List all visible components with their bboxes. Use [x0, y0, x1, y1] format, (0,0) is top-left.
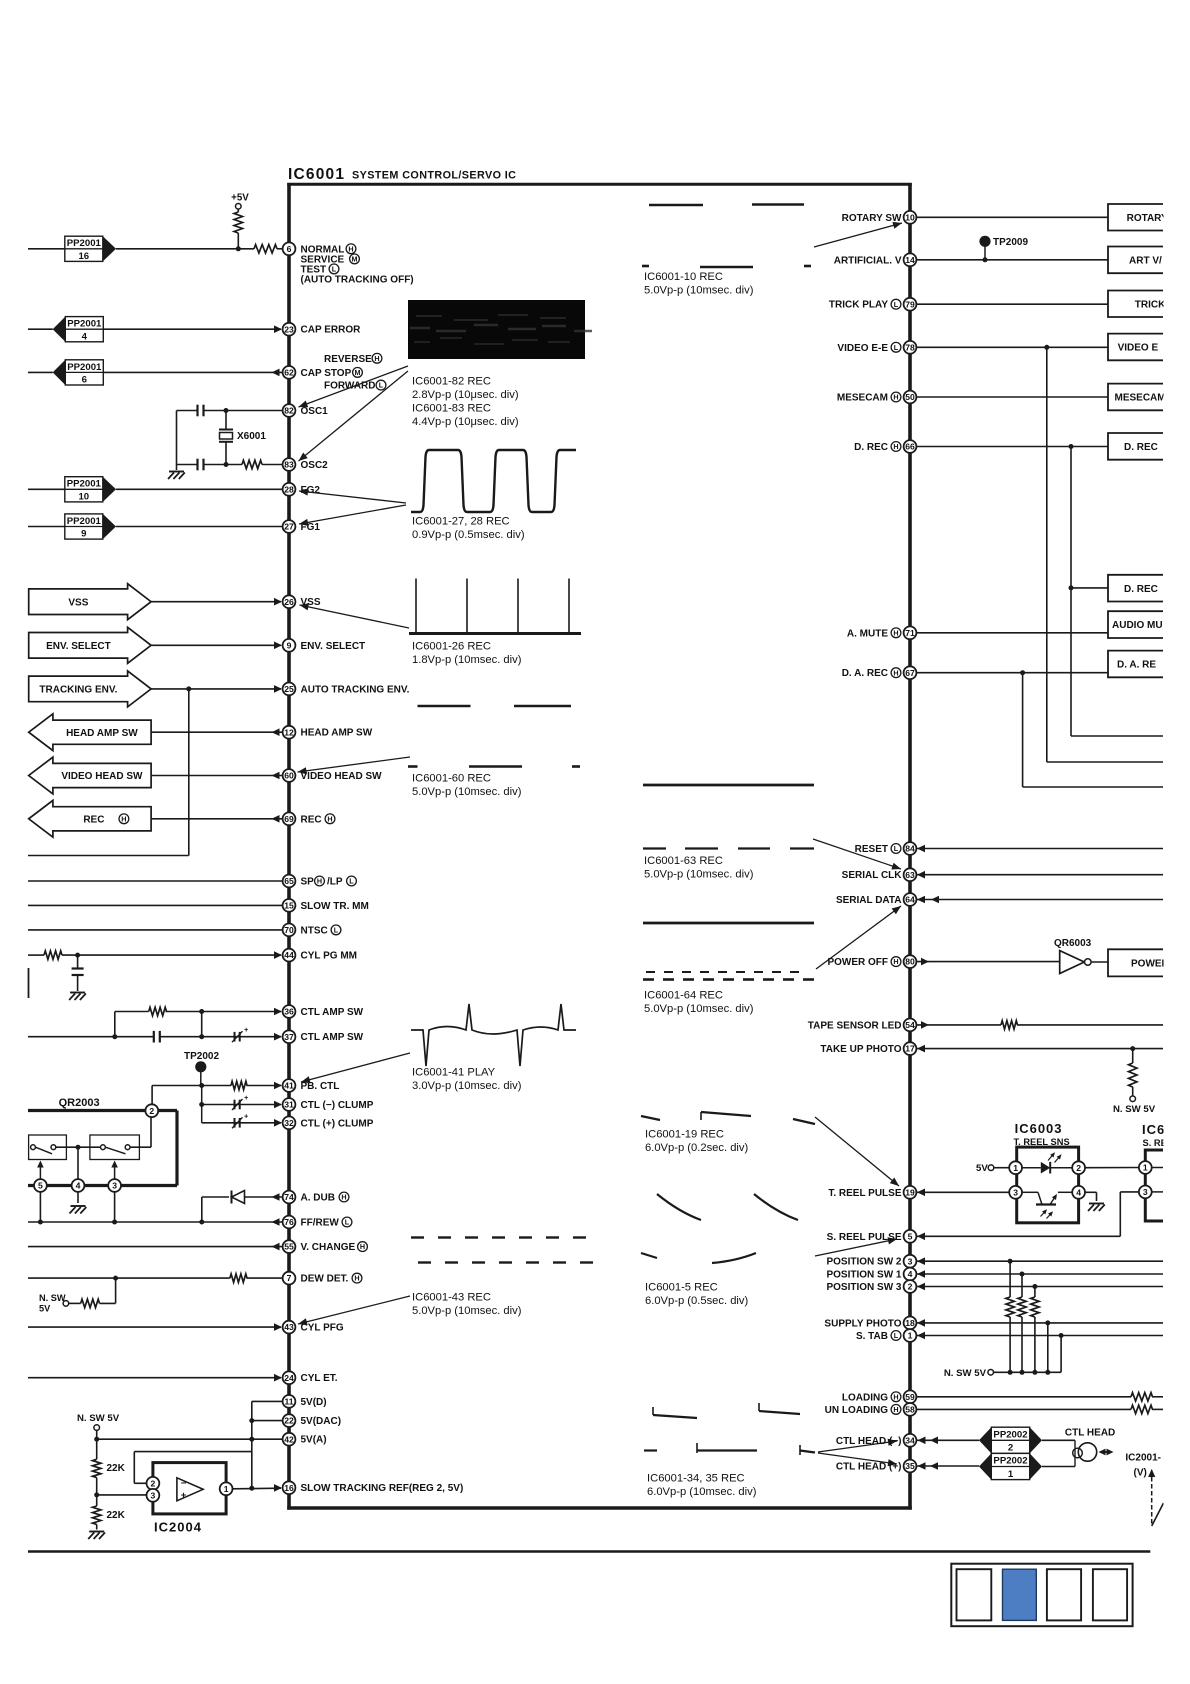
svg-text:74: 74 [284, 1192, 294, 1202]
svg-text:5V: 5V [976, 1163, 988, 1174]
connector PP2001 pin9 [28, 514, 116, 540]
svg-text:VIDEO HEAD SW: VIDEO HEAD SW [301, 771, 383, 782]
pin 31 CTL(-)CLUMP [283, 1098, 374, 1111]
svg-text:H: H [354, 1274, 359, 1283]
box D.REC 2 [1108, 575, 1163, 602]
connector PP2002 pin2 [979, 1427, 1042, 1454]
svg-text:H: H [327, 814, 332, 823]
svg-text:L: L [379, 381, 384, 390]
svg-text:CTL (+) CLUMP: CTL (+) CLUMP [301, 1118, 374, 1129]
power N.SW 5V terminal [77, 1413, 120, 1460]
svg-text:4: 4 [908, 1269, 913, 1279]
svg-text:IC2001-: IC2001- [1125, 1453, 1161, 1464]
pin 9 ENV.SELECT [283, 639, 366, 652]
svg-text:CAP STOP: CAP STOP [301, 368, 352, 379]
svg-text:62: 62 [284, 368, 294, 378]
svg-text:IC6001-64 REC: IC6001-64 REC [644, 990, 723, 1002]
svg-text:CAP ERROR: CAP ERROR [301, 325, 362, 336]
clamp diode pair pin 32 [232, 1111, 249, 1128]
svg-text:A. DUB: A. DUB [301, 1193, 335, 1204]
wire pin 32 stub [202, 1119, 282, 1127]
pin 76 FF/REW [283, 1216, 352, 1229]
pin 15 SLOW TR.MM [283, 899, 369, 912]
svg-text:22K: 22K [107, 1463, 126, 1474]
pin 82 OSC1 [283, 404, 329, 417]
wire pin 2 POSITION SW3 [916, 1283, 1163, 1291]
wire pin 55 V.CHANGE [28, 1243, 282, 1251]
svg-text:SERIAL CLK: SERIAL CLK [842, 870, 903, 881]
wire pin 50 [916, 396, 1108, 398]
pointer to PB.CTL pin [301, 1053, 410, 1083]
pointer to CTL HEAD(-) pin [818, 1439, 897, 1452]
svg-text:16: 16 [284, 1483, 294, 1493]
wire coil arrow S2 [111, 1161, 118, 1180]
ground QR2003 pin4 [70, 1206, 87, 1214]
svg-text:42: 42 [284, 1434, 294, 1444]
label waveform 60 [412, 773, 522, 799]
svg-text:TP2002: TP2002 [184, 1051, 219, 1062]
pointer to OSC2 [299, 371, 409, 461]
svg-text:5V(DAC): 5V(DAC) [301, 1416, 342, 1427]
pin 36 CTL AMP SW [283, 1005, 364, 1018]
node switch junction [76, 1145, 81, 1150]
label waveform 41 [412, 1067, 522, 1093]
wire sw junction to pin4 [77, 1147, 79, 1179]
pin 41 PB.CTL [283, 1079, 340, 1092]
wire pin 34 CTL HEAD(-) [916, 1437, 979, 1445]
svg-text:IC6001-82 REC: IC6001-82 REC [412, 376, 491, 388]
svg-text:60: 60 [284, 771, 294, 781]
svg-text:1: 1 [908, 1331, 913, 1341]
svg-text:PP2001: PP2001 [67, 516, 102, 527]
pointer to CYL PFG pin [298, 1296, 410, 1325]
wire 5V bus vertical [251, 1401, 253, 1487]
svg-text:2.8Vp-p (10μsec. div): 2.8Vp-p (10μsec. div) [412, 389, 519, 401]
svg-text:IC6001: IC6001 [288, 166, 345, 183]
wire pin 44 CYL PG [28, 951, 282, 959]
svg-text:SP: SP [301, 877, 315, 888]
svg-text:(V): (V) [1134, 1468, 1147, 1479]
svg-text:D. REC: D. REC [1124, 442, 1158, 453]
svg-text:SYSTEM CONTROL/SERVO IC: SYSTEM CONTROL/SERVO IC [352, 170, 516, 182]
power N.SW 5V takeup [1113, 1096, 1156, 1115]
pointer to S.REEL PULSE pin [815, 1237, 897, 1256]
pin 59 LOADING [842, 1390, 917, 1403]
box TRICK [1108, 291, 1166, 318]
svg-text:28: 28 [284, 484, 294, 494]
svg-text:9: 9 [287, 640, 292, 650]
wire pin 37 CTL AMP SW [28, 1033, 282, 1041]
label IC6004 [1142, 1122, 1173, 1148]
svg-text:83: 83 [284, 460, 294, 470]
wire to op-amp pin3 [97, 1494, 146, 1496]
resistor loading [1131, 1393, 1153, 1401]
svg-text:H: H [348, 244, 353, 253]
svg-text:POWER OFF: POWER OFF [827, 957, 888, 968]
pointer to OSC1 [299, 366, 409, 407]
svg-text:PP2001: PP2001 [67, 479, 102, 490]
wire pin 76 FF/REW [28, 1218, 282, 1226]
node HEAD AMP SW output arrow [29, 714, 151, 751]
pin 50 MESECAM [837, 391, 917, 404]
svg-text:IC2004: IC2004 [154, 1520, 202, 1535]
LED IC6003 [1022, 1152, 1072, 1173]
pin 63 SERIAL CLK [842, 868, 917, 881]
node cyl-pg junction [75, 953, 80, 958]
svg-text:5.0Vp-p (10msec. div): 5.0Vp-p (10msec. div) [644, 1003, 754, 1015]
switch QR2003 S2 [90, 1135, 139, 1160]
svg-text:SLOW TR. MM: SLOW TR. MM [301, 901, 369, 912]
svg-text:25: 25 [284, 684, 294, 694]
pin QR2003-3 [108, 1179, 121, 1192]
svg-text:4: 4 [1076, 1187, 1081, 1197]
svg-text:POSITION SW 1: POSITION SW 1 [826, 1270, 901, 1281]
pin 23 CAP ERROR [283, 323, 362, 336]
svg-text:5.0Vp-p (10msec. div): 5.0Vp-p (10msec. div) [412, 1305, 522, 1317]
svg-text:L: L [349, 877, 354, 886]
wire pin 3 POSITION SW2 [916, 1257, 1163, 1265]
svg-text:59: 59 [905, 1392, 915, 1402]
box VIDEO E [1108, 334, 1163, 361]
pin 70 NTSC [283, 924, 341, 937]
pin 1 S.TAB [856, 1329, 916, 1342]
pointer to ROTARY SW pin [814, 222, 902, 247]
IC U-IC6001 body outline [287, 183, 912, 1510]
svg-text:2: 2 [1008, 1443, 1013, 1454]
svg-text:S. TAB: S. TAB [856, 1331, 888, 1342]
svg-text:ENV. SELECT: ENV. SELECT [301, 641, 366, 652]
connector PP2001 pin4 [28, 317, 103, 343]
pin 32 CTL(+)CLUMP [283, 1116, 374, 1129]
svg-text:9: 9 [81, 529, 86, 540]
svg-text:82: 82 [284, 406, 294, 416]
wire d-rec branch [1071, 447, 1163, 737]
svg-text:POSITION SW 3: POSITION SW 3 [826, 1282, 901, 1293]
svg-text:4: 4 [76, 1181, 81, 1191]
box AUDIO MU [1108, 611, 1163, 638]
svg-text:6: 6 [287, 244, 292, 254]
wire pin 84 RESET [916, 845, 1163, 853]
svg-text:ROTARY: ROTARY [1127, 213, 1168, 224]
svg-text:T. REEL SNS: T. REEL SNS [1014, 1137, 1070, 1147]
node TRACKING ENV. input arrow [29, 671, 151, 707]
svg-text:AUDIO MU: AUDIO MU [1112, 620, 1163, 631]
waveform 64 [643, 923, 814, 980]
wire TP2002 down [200, 1072, 203, 1123]
svg-text:N. SW 5V: N. SW 5V [1113, 1104, 1156, 1115]
svg-text:12: 12 [284, 727, 294, 737]
pin 6 NORMAL [277, 242, 295, 255]
switch QR2003 S1 [29, 1135, 67, 1160]
label IC2004 [154, 1520, 202, 1535]
svg-text:65: 65 [284, 876, 294, 886]
waveform photo IC6001-82/83 [408, 300, 592, 359]
svg-text:H: H [341, 1193, 346, 1202]
page margin mask [1164, 120, 1190, 1540]
svg-text:+: + [181, 1490, 187, 1501]
pin IC6003-1 [1009, 1161, 1022, 1174]
svg-text:CTL AMP SW: CTL AMP SW [301, 1032, 364, 1043]
resistor pb-ctl [231, 1081, 247, 1089]
svg-text:IC6001-34, 35 REC: IC6001-34, 35 REC [647, 1473, 745, 1485]
svg-text:PP2001: PP2001 [67, 238, 102, 249]
pin 80 POWER OFF [827, 955, 916, 968]
wire pin 43 CYL PFG [28, 1323, 282, 1331]
node video e-e junction [1044, 345, 1049, 350]
pin IC6003-3 [1009, 1186, 1022, 1199]
power N.SW 5V dew branch [39, 1278, 116, 1313]
svg-text:IC6001-5 REC: IC6001-5 REC [645, 1282, 718, 1294]
pin 83 OSC2 [283, 458, 329, 471]
node osc2 junction [224, 462, 229, 467]
IC U-IC6001 title [288, 166, 516, 183]
svg-text:16: 16 [78, 251, 89, 262]
wire pin 59 LOADING [916, 1396, 1163, 1398]
waveform squ 60 [408, 706, 580, 767]
svg-text:70: 70 [284, 925, 294, 935]
wire pin 28 FG2 [116, 488, 282, 490]
node +5V junction [236, 246, 241, 251]
label waveform 10 [644, 271, 754, 297]
node d-rec junction [1069, 444, 1074, 449]
box MESECAM [1108, 384, 1166, 411]
wire osc left rail [176, 411, 178, 471]
waveform dashed 43 [411, 1238, 593, 1263]
svg-text:78: 78 [905, 342, 915, 352]
capacitor cyl-pg bypass [72, 955, 84, 991]
clamp diode pair pin 31 [232, 1093, 249, 1110]
wire pin 65 SP/LP [28, 880, 282, 882]
svg-text:VIDEO E: VIDEO E [1118, 343, 1159, 354]
svg-text:19: 19 [905, 1187, 915, 1197]
svg-text:D. A. RE: D. A. RE [1117, 660, 1156, 671]
svg-text:H: H [893, 1405, 898, 1414]
svg-text:CTL AMP SW: CTL AMP SW [301, 1007, 364, 1018]
pointer to FG2 [299, 488, 406, 503]
svg-text:NTSC: NTSC [301, 925, 328, 936]
wire pin 80 POWER OFF [916, 958, 1060, 966]
node ff-rew junctions [38, 1220, 204, 1225]
pin 7 DEW DET [283, 1272, 362, 1285]
wire pin 1 S.TAB [916, 1332, 1163, 1340]
inverter QR6003 [1054, 938, 1108, 974]
wire pin 54 TAPE SENSOR LED [916, 1021, 1163, 1029]
node VIDEO HEAD SW output arrow [29, 757, 151, 794]
node take-up junction [1130, 1046, 1135, 1051]
wire pin 24 CYL ET [28, 1374, 282, 1382]
resistor 22K upper [93, 1459, 126, 1477]
svg-text:L: L [894, 1331, 899, 1340]
ground osc [168, 472, 185, 480]
svg-text:HEAD AMP SW: HEAD AMP SW [66, 728, 138, 739]
label NORMAL/SERVICE/TEST [301, 244, 414, 285]
svg-text:3: 3 [112, 1181, 117, 1191]
pin 28 FG2 [283, 483, 321, 496]
svg-text:D. REC: D. REC [854, 442, 888, 453]
label CTL HEAD [1065, 1427, 1115, 1438]
wire d-rec2 stub [1071, 587, 1108, 589]
wire pin 5 S.REEL PULSE [916, 1192, 1139, 1240]
svg-text:AUTO TRACKING ENV.: AUTO TRACKING ENV. [301, 684, 410, 695]
label waveform 19 [645, 1129, 748, 1155]
svg-text:VIDEO E-E: VIDEO E-E [837, 343, 888, 354]
wire QR pin4 down [77, 1192, 79, 1203]
svg-text:L: L [894, 300, 899, 309]
pin 42 5V(A) [283, 1433, 327, 1446]
svg-text:5V(D): 5V(D) [301, 1397, 327, 1408]
pin 25 AUTO TRACKING ENV. [283, 683, 410, 696]
pin IC2004-1 [220, 1482, 233, 1495]
node osc1 junction [224, 408, 229, 413]
resistor 22K lower [93, 1506, 126, 1524]
page indicator box 4 [1093, 1569, 1127, 1620]
svg-text:0.9Vp-p (0.5msec. div): 0.9Vp-p (0.5msec. div) [412, 529, 525, 541]
svg-text:84: 84 [905, 844, 915, 854]
svg-text:L: L [334, 926, 339, 935]
waveform 10 [642, 205, 811, 268]
svg-text:PP2001: PP2001 [67, 319, 102, 330]
svg-text:IC6001-43 REC: IC6001-43 REC [412, 1292, 491, 1304]
svg-text:TRICK: TRICK [1135, 299, 1166, 310]
svg-text:IC6001-26 REC: IC6001-26 REC [412, 641, 491, 653]
svg-text:REVERSE: REVERSE [324, 354, 372, 365]
IC6003 outline [1017, 1147, 1079, 1223]
page indicator box 1 [957, 1569, 992, 1620]
svg-text:5V(A): 5V(A) [301, 1435, 327, 1446]
svg-text:TP2009: TP2009 [993, 237, 1028, 248]
pin 5 S.REEL PULSE [827, 1230, 917, 1243]
label waveform 34/35 [647, 1473, 757, 1499]
pin QR2003-5 [34, 1179, 47, 1192]
wire PP2001-16 to pin 6 [116, 248, 254, 250]
svg-text:6.0Vp-p (0.5sec. div): 6.0Vp-p (0.5sec. div) [645, 1295, 748, 1307]
svg-text:14: 14 [905, 255, 915, 265]
svg-text:D. REC: D. REC [1124, 584, 1158, 595]
wire pin 64 SERIAL DATA [916, 896, 1163, 904]
svg-text:22: 22 [284, 1416, 294, 1426]
wire switch common [56, 1146, 151, 1148]
wire pin 41 PB.CTL [152, 1082, 282, 1111]
svg-text:N. SW: N. SW [39, 1293, 66, 1303]
svg-text:36: 36 [284, 1007, 294, 1017]
node tracking branch junction [186, 686, 191, 691]
power +5V terminal [231, 193, 249, 210]
svg-text:3: 3 [908, 1256, 913, 1266]
pointer to SERIAL CLK pin [813, 839, 901, 870]
svg-text:LOADING: LOADING [842, 1392, 888, 1403]
pin 24 CYL ET [283, 1371, 338, 1384]
pin 35 CTL HEAD(+) [836, 1460, 917, 1473]
pointer to CTL HEAD(+) pin [818, 1453, 897, 1466]
svg-text:L: L [332, 265, 337, 274]
svg-text:VSS: VSS [68, 597, 88, 608]
svg-text:55: 55 [284, 1242, 294, 1252]
svg-text:1.8Vp-p (10msec. div): 1.8Vp-p (10msec. div) [412, 654, 522, 666]
label waveform 5 [645, 1282, 748, 1308]
pointer to T.REEL PULSE pin [815, 1117, 899, 1186]
wire pin 7 DEW DET [28, 1277, 282, 1279]
pin 19 T.REEL PULSE [828, 1186, 916, 1199]
svg-text:RESET: RESET [855, 844, 888, 855]
pin 18 SUPPLY PHOTO [824, 1317, 916, 1330]
diode pin 74 A.DUB [202, 1191, 282, 1204]
svg-text:IC6001-19 REC: IC6001-19 REC [645, 1129, 724, 1141]
svg-text:3: 3 [151, 1490, 156, 1500]
capacitor ctl-amp coupling [154, 1031, 160, 1043]
page indicator frame [951, 1564, 1132, 1627]
svg-text:80: 80 [905, 957, 915, 967]
pin IC2004-2 [147, 1477, 160, 1490]
pin IC6004-3 [1139, 1186, 1163, 1199]
label waveform 64 [644, 990, 754, 1016]
svg-text:58: 58 [905, 1405, 915, 1415]
svg-text:22K: 22K [107, 1510, 126, 1521]
resistor cyl-pg series [44, 951, 62, 959]
svg-text:IC6001-63 REC: IC6001-63 REC [644, 855, 723, 867]
terminal 5V IC6003 [976, 1163, 1009, 1174]
node ctl-amp junction b [112, 1034, 204, 1039]
node 31 junction [199, 1102, 204, 1107]
svg-text:37: 37 [284, 1032, 294, 1042]
label waveform 26 [412, 641, 522, 667]
wire pin 66 [916, 446, 1108, 448]
node op-amp out junction [249, 1486, 254, 1491]
svg-text:4.4Vp-p (10μsec. div): 4.4Vp-p (10μsec. div) [412, 416, 519, 428]
connector PP2001 pin10 [28, 477, 116, 503]
waveform 34/35 [644, 1403, 815, 1455]
connector PP2002 pin1 [979, 1453, 1042, 1480]
capacitor osc bottom [177, 459, 243, 471]
waveform ctl 41 [411, 1004, 576, 1066]
pin 69 REC H [283, 812, 335, 825]
pin 78 VIDEO E-E [837, 341, 916, 354]
crystal X6001 [219, 411, 266, 465]
wire a-dub down [201, 1197, 203, 1222]
wire IC2001 ramp [1148, 1469, 1163, 1526]
resistor take-up pull [1129, 1049, 1137, 1096]
svg-text:+: + [244, 1093, 249, 1102]
svg-text:1: 1 [1013, 1163, 1018, 1173]
pin 65 SP/LP [283, 875, 357, 888]
ground 22K [88, 1532, 105, 1540]
svg-text:7: 7 [287, 1273, 292, 1283]
svg-text:24: 24 [284, 1373, 294, 1383]
svg-text:OSC2: OSC2 [301, 460, 329, 471]
wire pin 60 to arrow [151, 772, 282, 780]
node ENV.SELECT input arrow [29, 627, 151, 663]
svg-text:35: 35 [905, 1461, 915, 1471]
waveform 19 sawtooth [641, 1112, 815, 1124]
pin 34 CTL HEAD(-) [836, 1434, 917, 1447]
svg-text:11: 11 [284, 1397, 293, 1407]
svg-text:TRACKING ENV.: TRACKING ENV. [39, 685, 117, 696]
svg-text:H: H [121, 814, 126, 823]
svg-text:IC6003: IC6003 [1015, 1121, 1063, 1136]
pin QR2003-2 [145, 1104, 158, 1117]
svg-text:71: 71 [905, 628, 915, 638]
clamp diode pair pin 37 [232, 1025, 249, 1042]
pointer to VIDEO HEAD SW pin [298, 757, 411, 774]
wire pin 69 to arrow [151, 815, 282, 823]
pin 58 UN LOADING [825, 1403, 917, 1416]
pin 71 A.MUTE [847, 626, 917, 639]
node ctl-amp junction a [199, 1009, 204, 1014]
waveform 5 curves [641, 1194, 798, 1263]
svg-text:D. A. REC: D. A. REC [842, 668, 888, 679]
svg-text:4: 4 [82, 331, 88, 342]
resistor posn sw3 pull [1031, 1287, 1039, 1373]
svg-text:CTL HEAD (+): CTL HEAD (+) [836, 1462, 902, 1473]
